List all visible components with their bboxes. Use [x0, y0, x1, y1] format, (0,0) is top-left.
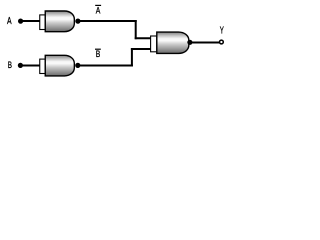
terminal A (input pin dot) [18, 19, 23, 24]
terminal B (input pin dot) [18, 63, 23, 68]
NAND U3 body [157, 32, 189, 53]
svg-text:B: B [8, 60, 12, 71]
wire U2 output to corner (net Bbar) [79, 65, 133, 67]
NAND U3 output bubble dot [187, 40, 192, 45]
NAND U3 input box [151, 36, 157, 52]
wire B to U2 input [22, 65, 41, 67]
inverter U2 output bubble dot [75, 63, 80, 68]
inverter U1 output bubble dot [75, 19, 80, 24]
inverter U1 body [45, 11, 74, 32]
wire into U3 top input [135, 37, 151, 39]
wire vertical up from Bbar [131, 48, 133, 66]
svg-text:A: A [96, 6, 101, 16]
wire vertical down from Abar [135, 20, 137, 39]
wire U3 output to terminal Y [191, 42, 220, 44]
wire U1 output to corner (net Abar) [79, 20, 137, 22]
inverter U2 body [45, 55, 74, 76]
svg-text:A: A [7, 16, 12, 27]
wire A to U1 input [22, 20, 41, 22]
node Bbar label overline [95, 48, 101, 50]
svg-text:Y: Y [220, 26, 224, 37]
wire into U3 bottom input [131, 48, 151, 50]
inverter U2 input box [40, 59, 46, 73]
inverter U1 input box [40, 15, 46, 30]
node Abar label overline [95, 4, 101, 6]
svg-text:B: B [96, 49, 101, 59]
terminal Y (open output pin) [220, 40, 224, 44]
